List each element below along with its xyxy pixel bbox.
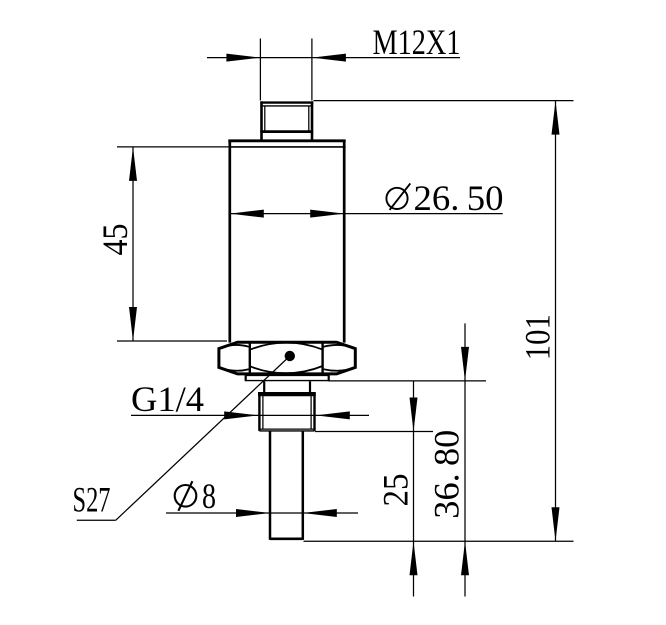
body top flange bbox=[228, 141, 345, 147]
dimension dia 8 line bbox=[166, 512, 358, 514]
svg-text:G1/4: G1/4 bbox=[131, 379, 204, 419]
dimension dia 26.50 line bbox=[230, 213, 503, 215]
dimension dia 8 arrows bbox=[236, 509, 270, 517]
dimension 36.80 line bbox=[464, 323, 466, 596]
dimension 25 arrows bbox=[410, 398, 418, 432]
svg-text:M12X1: M12X1 bbox=[373, 22, 461, 62]
body cylinder bbox=[230, 141, 344, 343]
dimension 36.80 extension line bbox=[329, 380, 487, 382]
svg-text:45: 45 bbox=[95, 224, 135, 256]
dimension 45 line bbox=[132, 147, 134, 341]
pressure probe tube bbox=[270, 431, 303, 540]
dimension dia 26.50 arrows bbox=[230, 210, 264, 218]
hex nut chamfer arcs bbox=[220, 343, 354, 374]
dimension 25 extension line bbox=[315, 431, 433, 433]
svg-text:101: 101 bbox=[517, 314, 557, 360]
svg-text:25: 25 bbox=[375, 474, 415, 507]
dimension M12X1 arrows bbox=[226, 54, 260, 62]
connector thread minor lines bbox=[265, 106, 309, 132]
dimension 25 line bbox=[413, 381, 415, 597]
dimension dia 26.50 phi symbol bbox=[386, 183, 410, 210]
dimension dia 8 phi symbol bbox=[175, 481, 197, 511]
dimension 45 extension lines bbox=[117, 147, 228, 341]
connector M12 plug outline bbox=[260, 101, 313, 141]
leader line to S27 bbox=[77, 356, 290, 520]
hex nut S27 outline bbox=[219, 342, 355, 374]
neck between washer and thread bbox=[264, 381, 310, 392]
dimension G1/4 arrows bbox=[224, 411, 258, 419]
dimension M12X1 line bbox=[207, 57, 460, 59]
dimension 101 arrows bbox=[552, 101, 560, 135]
svg-text:36. 80: 36. 80 bbox=[427, 430, 467, 519]
dimension G1/4 line bbox=[131, 414, 369, 416]
leader dot on hex face bbox=[285, 351, 295, 361]
hex nut face division lines bbox=[250, 343, 323, 373]
G1/4 thread section bbox=[258, 394, 316, 431]
svg-text:S27: S27 bbox=[73, 480, 111, 520]
dimension 45 arrows bbox=[129, 147, 137, 181]
dimension 36.80 arrows bbox=[461, 347, 469, 381]
dimension M12X1 extension lines bbox=[260, 39, 312, 101]
dimension 101 line bbox=[555, 101, 557, 542]
dimension 101 extension lines bbox=[304, 101, 574, 542]
washer below hex bbox=[246, 375, 329, 381]
svg-text:8: 8 bbox=[202, 476, 216, 516]
svg-text:26. 50: 26. 50 bbox=[414, 178, 504, 218]
